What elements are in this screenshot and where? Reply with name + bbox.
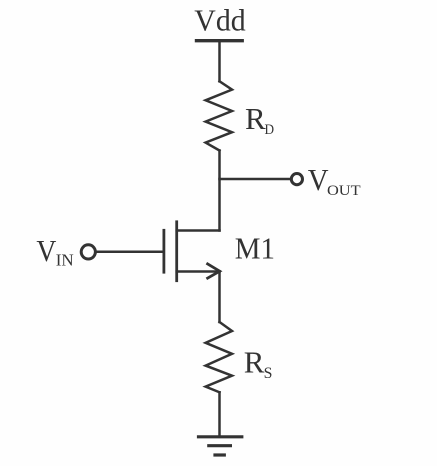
node output junction wire to Vout terminal xyxy=(220,178,291,181)
svg-text:V: V xyxy=(36,233,57,268)
svg-text:V: V xyxy=(308,162,329,197)
transistor M1 source arrow (NMOS) xyxy=(206,263,219,279)
terminal circle Vout xyxy=(291,174,302,185)
svg-text:R: R xyxy=(245,101,266,136)
svg-text:M1: M1 xyxy=(235,231,275,266)
transistor M1 channel bar xyxy=(175,222,178,281)
svg-text:IN: IN xyxy=(56,251,74,270)
Vdd supply rail bar xyxy=(197,39,243,42)
svg-text:OUT: OUT xyxy=(327,183,361,199)
resistor R_D xyxy=(206,81,232,150)
transistor M1 source wire xyxy=(177,270,220,273)
svg-text:S: S xyxy=(264,365,273,382)
wire source to R_S top xyxy=(218,272,221,323)
wire R_D bottom to drain (through output node) xyxy=(218,151,221,231)
svg-text:Vdd: Vdd xyxy=(194,2,246,37)
node V_OUT label xyxy=(308,162,361,199)
node V_IN label xyxy=(36,233,73,270)
wire gate to Vin terminal xyxy=(97,251,163,254)
transistor M1 gate bar xyxy=(162,230,165,272)
resistor R_D value label xyxy=(245,101,274,138)
transistor M1 drain wire xyxy=(177,229,220,232)
wire R_S bottom to ground xyxy=(218,392,221,437)
resistor R_S value label xyxy=(244,344,273,382)
ground symbol xyxy=(199,437,242,455)
svg-text:D: D xyxy=(265,122,275,138)
terminal circle Vin xyxy=(81,245,95,259)
svg-text:R: R xyxy=(244,344,265,379)
resistor R_S xyxy=(206,322,232,392)
wire Vdd rail to R_D top xyxy=(218,41,221,82)
